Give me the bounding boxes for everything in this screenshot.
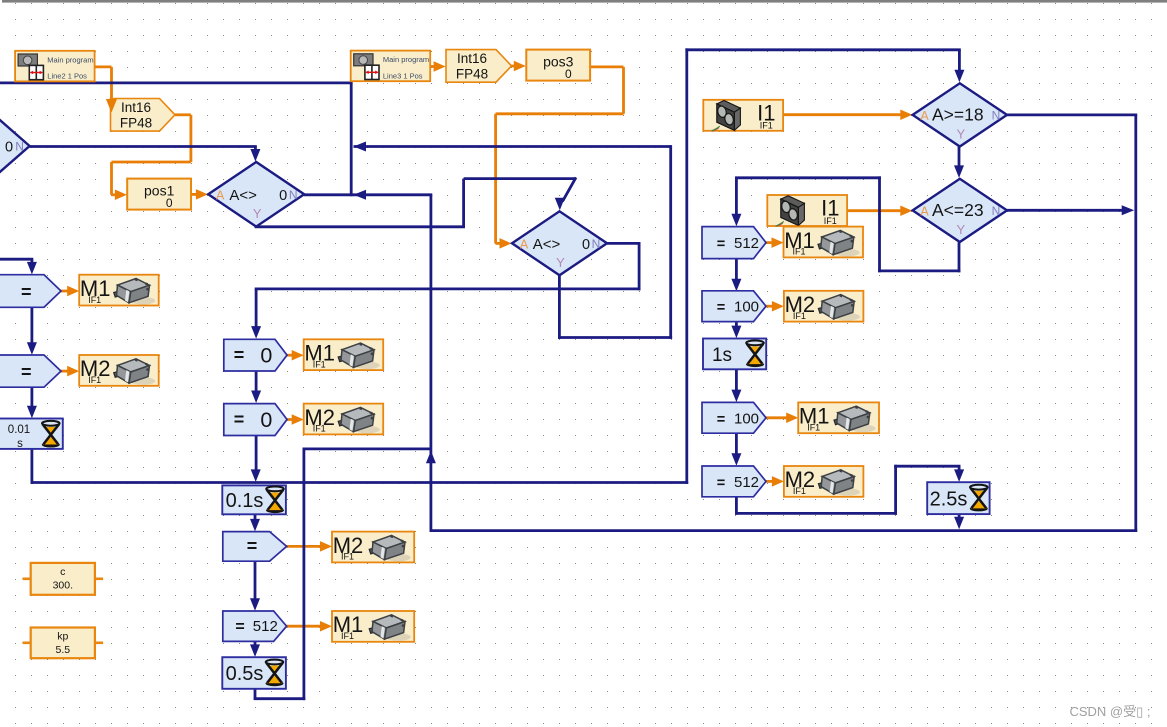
wire =512 to 0.5s mid (254, 641, 257, 649)
orange arrow =512 M1 mid2 (286, 625, 323, 628)
orange arrow =512 M1 right (766, 241, 775, 244)
svg-text:Line2 1 Pos: Line2 1 Pos (47, 72, 87, 81)
svg-text:IF1: IF1 (88, 295, 101, 305)
svg-text:=: = (21, 362, 32, 382)
svg-text:IF1: IF1 (807, 423, 820, 433)
svg-text:N: N (992, 108, 1001, 122)
wire = to =512 mid (254, 561, 257, 603)
svg-text:c: c (60, 566, 65, 578)
svg-text:FP48: FP48 (456, 67, 488, 82)
orange wire pos3 to A<> pos3 A-input (591, 66, 624, 69)
svg-text:=: = (21, 282, 32, 302)
top toolbar edge (2, 0, 1167, 3)
svg-text:N: N (592, 237, 601, 251)
wire A<=23 Y branch loop (958, 242, 961, 272)
svg-text:5.5: 5.5 (55, 644, 70, 656)
svg-text:Int16: Int16 (457, 51, 487, 66)
decision diamond A<> pos1 (208, 162, 304, 227)
svg-text:N: N (289, 188, 298, 202)
motor block M1 mid2 (332, 611, 414, 642)
variable block Int16 FP48 #2 (446, 50, 512, 83)
sensor block I1 top (703, 100, 783, 131)
svg-text:IF1: IF1 (313, 359, 326, 369)
wire right chain =100 to =512 (735, 433, 738, 458)
svg-text:A>=18: A>=18 (932, 104, 984, 124)
wire big return y531 (430, 529, 1138, 532)
motor block M1 right2 (798, 402, 879, 433)
svg-text:Line3 1 Pos: Line3 1 Pos (383, 71, 423, 80)
decision diamond A>=18 (913, 83, 1007, 146)
wire = to 0.01s left chain (30, 387, 33, 410)
svg-text:0.5s: 0.5s (226, 663, 264, 685)
wire right chain =512 to 2.5s (735, 497, 738, 515)
wire A>=18 Y branch (958, 146, 961, 169)
sensor block I1 lower (767, 195, 847, 226)
wire 0.5s loop back (254, 689, 257, 699)
svg-text:A: A (520, 237, 529, 251)
orange arrow =100 M2 right (766, 305, 775, 308)
wire left chain entry y259 (0, 258, 33, 261)
svg-text:Y: Y (253, 206, 262, 221)
svg-text:300.: 300. (53, 579, 73, 591)
decision diamond A<> pos3 (512, 211, 607, 275)
svg-text:Y: Y (956, 126, 965, 141)
svg-text:512: 512 (734, 474, 759, 491)
svg-text:0.1s: 0.1s (226, 490, 264, 512)
svg-text:=: = (717, 412, 725, 428)
wire 2.5s output joins return (958, 514, 961, 522)
wire vertical diamond2-Y x559 (558, 275, 561, 339)
svg-text:IF1: IF1 (824, 216, 837, 226)
assign pentagon = left1 (0, 275, 61, 308)
orange wire I1-2 to A<=23 (847, 209, 902, 212)
subprogram block Main program Line2 1 Pos (15, 51, 95, 82)
wire vertical x670 loop (669, 145, 672, 339)
svg-text:100: 100 (734, 299, 759, 316)
svg-text:IF1: IF1 (313, 424, 326, 434)
wire 0.1s to = pentagon (254, 514, 257, 524)
variable block pos1 (127, 179, 191, 210)
constant block c 300. (31, 563, 95, 595)
assign pentagon =100 right1 (702, 291, 766, 322)
svg-text:512: 512 (253, 618, 278, 635)
orange wire Int16 to pos1 (175, 113, 191, 116)
svg-text:2.5s: 2.5s (930, 489, 968, 511)
assign pentagon =512 mid (223, 611, 287, 641)
svg-text:0: 0 (260, 343, 272, 367)
svg-text:0: 0 (5, 140, 13, 156)
svg-text:0: 0 (279, 188, 287, 204)
wire Y-branch of A<> pos1 to A<> pos3 (255, 225, 258, 227)
svg-text:s: s (17, 438, 23, 450)
svg-text:CSDN @受▯ ;: CSDN @受▯ ; (1069, 704, 1150, 719)
orange wire pos1 to A<> A-input (191, 193, 198, 196)
svg-text:A: A (216, 188, 225, 202)
svg-text:IF1: IF1 (793, 311, 806, 321)
svg-text:0.01: 0.01 (8, 424, 30, 436)
orange arrow = M2 mid2 (286, 545, 323, 548)
wire vertical x351 from Line3 block (350, 83, 353, 196)
motor block M2 mid (304, 404, 384, 435)
orange arrow =0 M2 mid (286, 418, 295, 421)
assign pentagon =0 mid1 (224, 339, 287, 371)
timer block 2.5s (927, 482, 989, 514)
orange wire Int16-2 to pos3 (512, 65, 517, 68)
svg-text:Y: Y (556, 255, 565, 270)
orange arrow =100 M1 right (766, 416, 789, 419)
svg-text:IF1: IF1 (341, 552, 354, 562)
svg-text:Main program: Main program (383, 55, 429, 64)
wire right chain 1s to =100 (735, 369, 738, 395)
orange wire I1 to A>=18 (783, 113, 902, 116)
timer block 0.01s (0, 419, 63, 449)
svg-text:N: N (992, 204, 1001, 218)
wire A>=18 N branch (1007, 114, 1137, 117)
svg-text:IF1: IF1 (88, 375, 101, 385)
svg-text:=: = (717, 236, 725, 252)
motor block M1 left (79, 275, 159, 306)
wire return y146 from x670 loop (354, 145, 671, 148)
wire right chain =100 to 1s (735, 322, 738, 331)
svg-text:IF1: IF1 (760, 121, 773, 131)
orange wire Main2 to Int16-2 (430, 65, 436, 68)
motor block M2 right2 (784, 466, 864, 497)
svg-text:Y: Y (956, 222, 965, 237)
svg-text:A<>: A<> (229, 187, 257, 204)
variable block Int16 FP48 #1 (111, 99, 176, 132)
svg-text:IF1: IF1 (793, 486, 806, 496)
svg-text:Main program: Main program (47, 55, 93, 64)
assign pentagon =0 mid2 (224, 404, 287, 436)
svg-text:N: N (15, 140, 24, 154)
svg-text:100: 100 (734, 410, 759, 427)
wire A<=23 N branch (1007, 209, 1125, 212)
subprogram block Main program Line3 1 Pos (351, 51, 431, 82)
wire 0.01s long loop to A>=18 (30, 449, 33, 484)
wire from left decision to A<> pos1 top (30, 145, 257, 148)
svg-text:A<>: A<> (533, 236, 561, 253)
wire mid chain =0 to 0.1s (255, 436, 258, 474)
svg-text:0: 0 (565, 67, 572, 81)
orange arrow =M2 left chain (61, 370, 70, 373)
svg-text:IF1: IF1 (341, 631, 354, 641)
wire N-branch of A<> pos3 (607, 242, 641, 245)
timer block 1s (703, 339, 766, 370)
left cut decision diamond (0, 114, 30, 178)
orange arrow =512 M2 right (766, 480, 775, 483)
svg-text:0: 0 (166, 196, 173, 210)
svg-text:=: = (234, 410, 245, 430)
svg-text:=: = (717, 300, 725, 316)
svg-text:512: 512 (734, 235, 759, 252)
motor block M2 right1 (784, 291, 864, 322)
svg-text:=: = (717, 476, 725, 492)
svg-text:A: A (920, 109, 929, 123)
svg-text:1s: 1s (712, 345, 732, 366)
variable block pos3 (526, 50, 590, 81)
wire horizontal y337 diamond2-Y (558, 336, 672, 339)
svg-text:kp: kp (57, 630, 68, 642)
svg-text:0: 0 (582, 237, 590, 253)
decision diamond A<=23 (913, 179, 1007, 242)
svg-text:=: = (234, 345, 245, 365)
motor block M2 mid2 (332, 532, 414, 563)
timer block 0.1s (222, 485, 286, 514)
orange arrow =M1 left chain (61, 290, 70, 293)
wire vertical x431 return (429, 195, 432, 532)
assign pentagon =512 right2 (702, 466, 766, 497)
wire N-branch y195 from A<> pos1 (304, 193, 432, 196)
timer block 0.5s (222, 657, 286, 689)
motor block M1 mid (304, 339, 384, 370)
motor block M2 left (79, 355, 159, 386)
svg-text:IF1: IF1 (792, 247, 805, 257)
constant block kp 5.5 (31, 628, 95, 659)
svg-text:A<=23: A<=23 (932, 200, 984, 220)
wire right chain =512 to =100 (735, 259, 738, 284)
svg-text:A: A (920, 204, 929, 218)
orange wire Main1 to Int16 (95, 66, 112, 69)
motor block M1 right1 (784, 227, 864, 258)
wire = to = left chain (30, 307, 33, 344)
svg-text:FP48: FP48 (120, 116, 152, 131)
assign pentagon = left2 (0, 355, 61, 387)
assign pentagon =100 right2 (702, 402, 766, 433)
assign pentagon =512 right1 (702, 227, 766, 259)
wire mid chain =0 to =0 (255, 371, 258, 396)
svg-text:Int16: Int16 (121, 100, 151, 115)
svg-text:=: = (247, 536, 258, 556)
orange arrow =0 M1 mid (286, 354, 295, 357)
svg-text:0: 0 (260, 408, 272, 432)
wire main-horizontal y83 (0, 82, 353, 85)
svg-text:=: = (235, 618, 244, 635)
assign pentagon = mid3 (223, 532, 287, 562)
